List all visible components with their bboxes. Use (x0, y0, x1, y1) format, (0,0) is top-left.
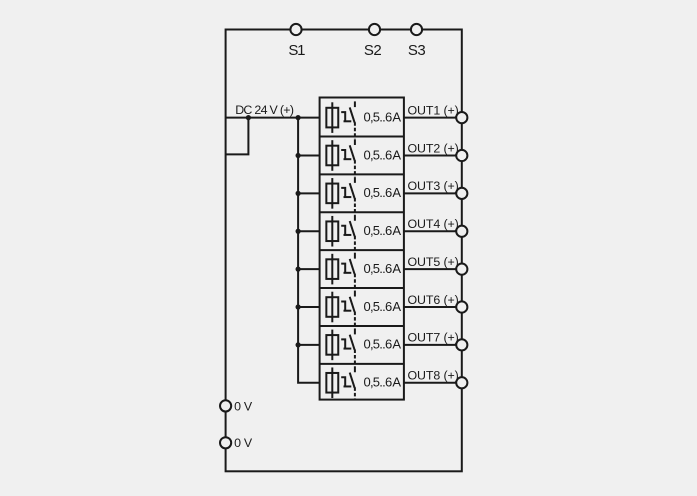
svg-text:A: A (392, 185, 401, 200)
svg-text:OUT3 (+): OUT3 (+) (408, 179, 459, 193)
svg-text:A: A (392, 299, 401, 314)
svg-text:A: A (392, 261, 401, 276)
svg-text:DC 24 V (+): DC 24 V (+) (235, 103, 294, 117)
svg-text:OUT4 (+): OUT4 (+) (408, 217, 459, 231)
svg-text:OUT1 (+): OUT1 (+) (408, 103, 459, 117)
svg-text:OUT6 (+): OUT6 (+) (408, 293, 459, 307)
svg-text:A: A (392, 223, 401, 238)
svg-text:OUT7 (+): OUT7 (+) (408, 331, 459, 345)
svg-text:S3: S3 (408, 42, 426, 59)
svg-text:S2: S2 (364, 42, 382, 59)
svg-text:A: A (392, 337, 401, 352)
svg-text:0,5..6: 0,5..6 (363, 375, 392, 390)
svg-text:OUT5 (+): OUT5 (+) (408, 255, 459, 269)
svg-text:A: A (392, 109, 401, 124)
svg-text:0,5..6: 0,5..6 (363, 147, 392, 162)
svg-text:0,5..6: 0,5..6 (363, 185, 392, 200)
svg-text:0,5..6: 0,5..6 (363, 261, 392, 276)
svg-text:A: A (392, 375, 401, 390)
svg-text:0,5..6: 0,5..6 (363, 223, 392, 238)
svg-text:OUT8 (+): OUT8 (+) (408, 369, 459, 383)
svg-text:A: A (392, 147, 401, 162)
svg-text:0,5..6: 0,5..6 (363, 337, 392, 352)
svg-text:S1: S1 (288, 42, 305, 59)
svg-text:0,5..6: 0,5..6 (363, 299, 392, 314)
svg-text:OUT2 (+): OUT2 (+) (408, 141, 459, 155)
svg-text:0 V: 0 V (234, 436, 253, 450)
svg-text:0,5..6: 0,5..6 (363, 109, 392, 124)
svg-text:0 V: 0 V (234, 399, 253, 413)
